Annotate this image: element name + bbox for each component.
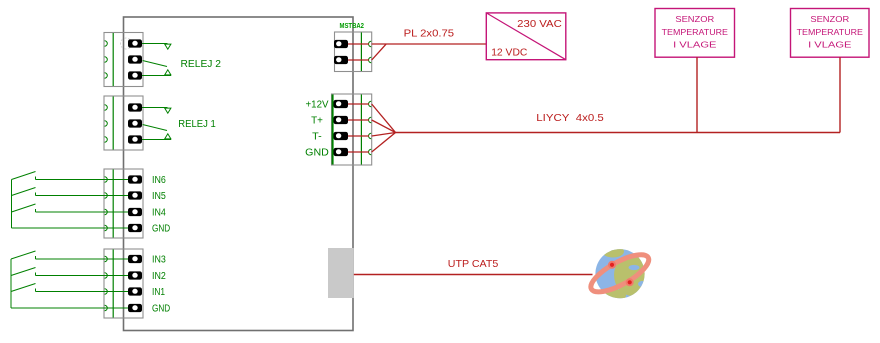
switch S4 wiring to IN4 xyxy=(12,204,129,212)
wire PL pair to power supply xyxy=(372,44,487,60)
svg-text:LIYCY 4x0.5: LIYCY 4x0.5 xyxy=(536,112,604,124)
wire harness LIYCY merge xyxy=(372,104,396,152)
RJ45 ethernet port xyxy=(328,248,354,298)
GND bus wire (upper switch group) xyxy=(12,180,129,229)
power supply 230VAC/12VDC xyxy=(486,13,566,60)
connector K2 (RELEJ 1 terminal block) xyxy=(104,96,143,150)
svg-text:IN3: IN3 xyxy=(152,255,166,266)
svg-text:UTP CAT5: UTP CAT5 xyxy=(448,258,499,270)
wire sensor 1 drop xyxy=(696,57,698,132)
switch S3 wiring to IN3 xyxy=(11,251,128,259)
svg-text:IN2: IN2 xyxy=(152,271,166,282)
svg-text:RELEJ 1: RELEJ 1 xyxy=(178,119,216,130)
wire sensor 2 drop xyxy=(839,57,841,132)
svg-text:IN1: IN1 xyxy=(152,287,165,298)
svg-text:PL 2x0.75: PL 2x0.75 xyxy=(404,28,455,40)
sensor module 2 (SENZOR TEMPERATURE I VLAGE) xyxy=(791,9,870,58)
svg-text:IN6: IN6 xyxy=(152,175,166,186)
internet globe icon xyxy=(586,246,654,303)
svg-text:12 VDC: 12 VDC xyxy=(491,46,528,58)
connector X3 (IN6 IN5 IN4 GND terminal block) xyxy=(104,169,143,238)
svg-text:T+: T+ xyxy=(311,116,323,127)
svg-text:I VLAGE: I VLAGE xyxy=(673,40,717,50)
connector X2 (+12V T+ T- GND) xyxy=(332,94,372,165)
svg-text:230 VAC: 230 VAC xyxy=(517,18,562,30)
GND bus wire (lower switch group) xyxy=(11,259,128,308)
connector X1 MSTBA2 (power input) xyxy=(334,32,372,72)
switch S6 wiring to IN6 xyxy=(12,172,129,180)
svg-text:GND: GND xyxy=(152,304,170,315)
svg-text:IN4: IN4 xyxy=(152,208,166,219)
svg-text:+12V: +12V xyxy=(306,100,329,111)
relay contact symbol RELEJ 2 xyxy=(142,44,171,76)
svg-text:SENZOR: SENZOR xyxy=(810,14,849,24)
relay contact symbol RELEJ 1 xyxy=(142,108,171,140)
svg-text:GND: GND xyxy=(305,148,329,159)
sensor module 1 (SENZOR TEMPERATURE I VLAGE) xyxy=(655,9,735,58)
wire UTP CAT5 xyxy=(354,274,593,276)
svg-text:SENZOR: SENZOR xyxy=(675,14,714,24)
svg-text:IN5: IN5 xyxy=(152,191,166,202)
svg-text:I VLAGE: I VLAGE xyxy=(808,40,852,50)
svg-text:T-: T- xyxy=(312,132,322,143)
switch S2 wiring to IN2 xyxy=(11,268,128,276)
connector K1 (RELEJ 2 terminal block) xyxy=(104,33,143,87)
svg-text:GND: GND xyxy=(152,224,170,235)
svg-text:TEMPERATURE: TEMPERATURE xyxy=(662,27,729,37)
switch S1 wiring to IN1 xyxy=(11,284,128,292)
svg-text:TEMPERATURE: TEMPERATURE xyxy=(797,27,864,37)
switch S5 wiring to IN5 xyxy=(12,188,129,196)
main controller unit outline xyxy=(124,17,354,331)
svg-text:RELEJ 2: RELEJ 2 xyxy=(181,59,222,70)
wire LIYCY bus xyxy=(396,132,841,134)
connector X4 (IN3 IN2 IN1 GND terminal block) xyxy=(104,249,143,318)
svg-text:MSTBA2: MSTBA2 xyxy=(340,21,365,30)
